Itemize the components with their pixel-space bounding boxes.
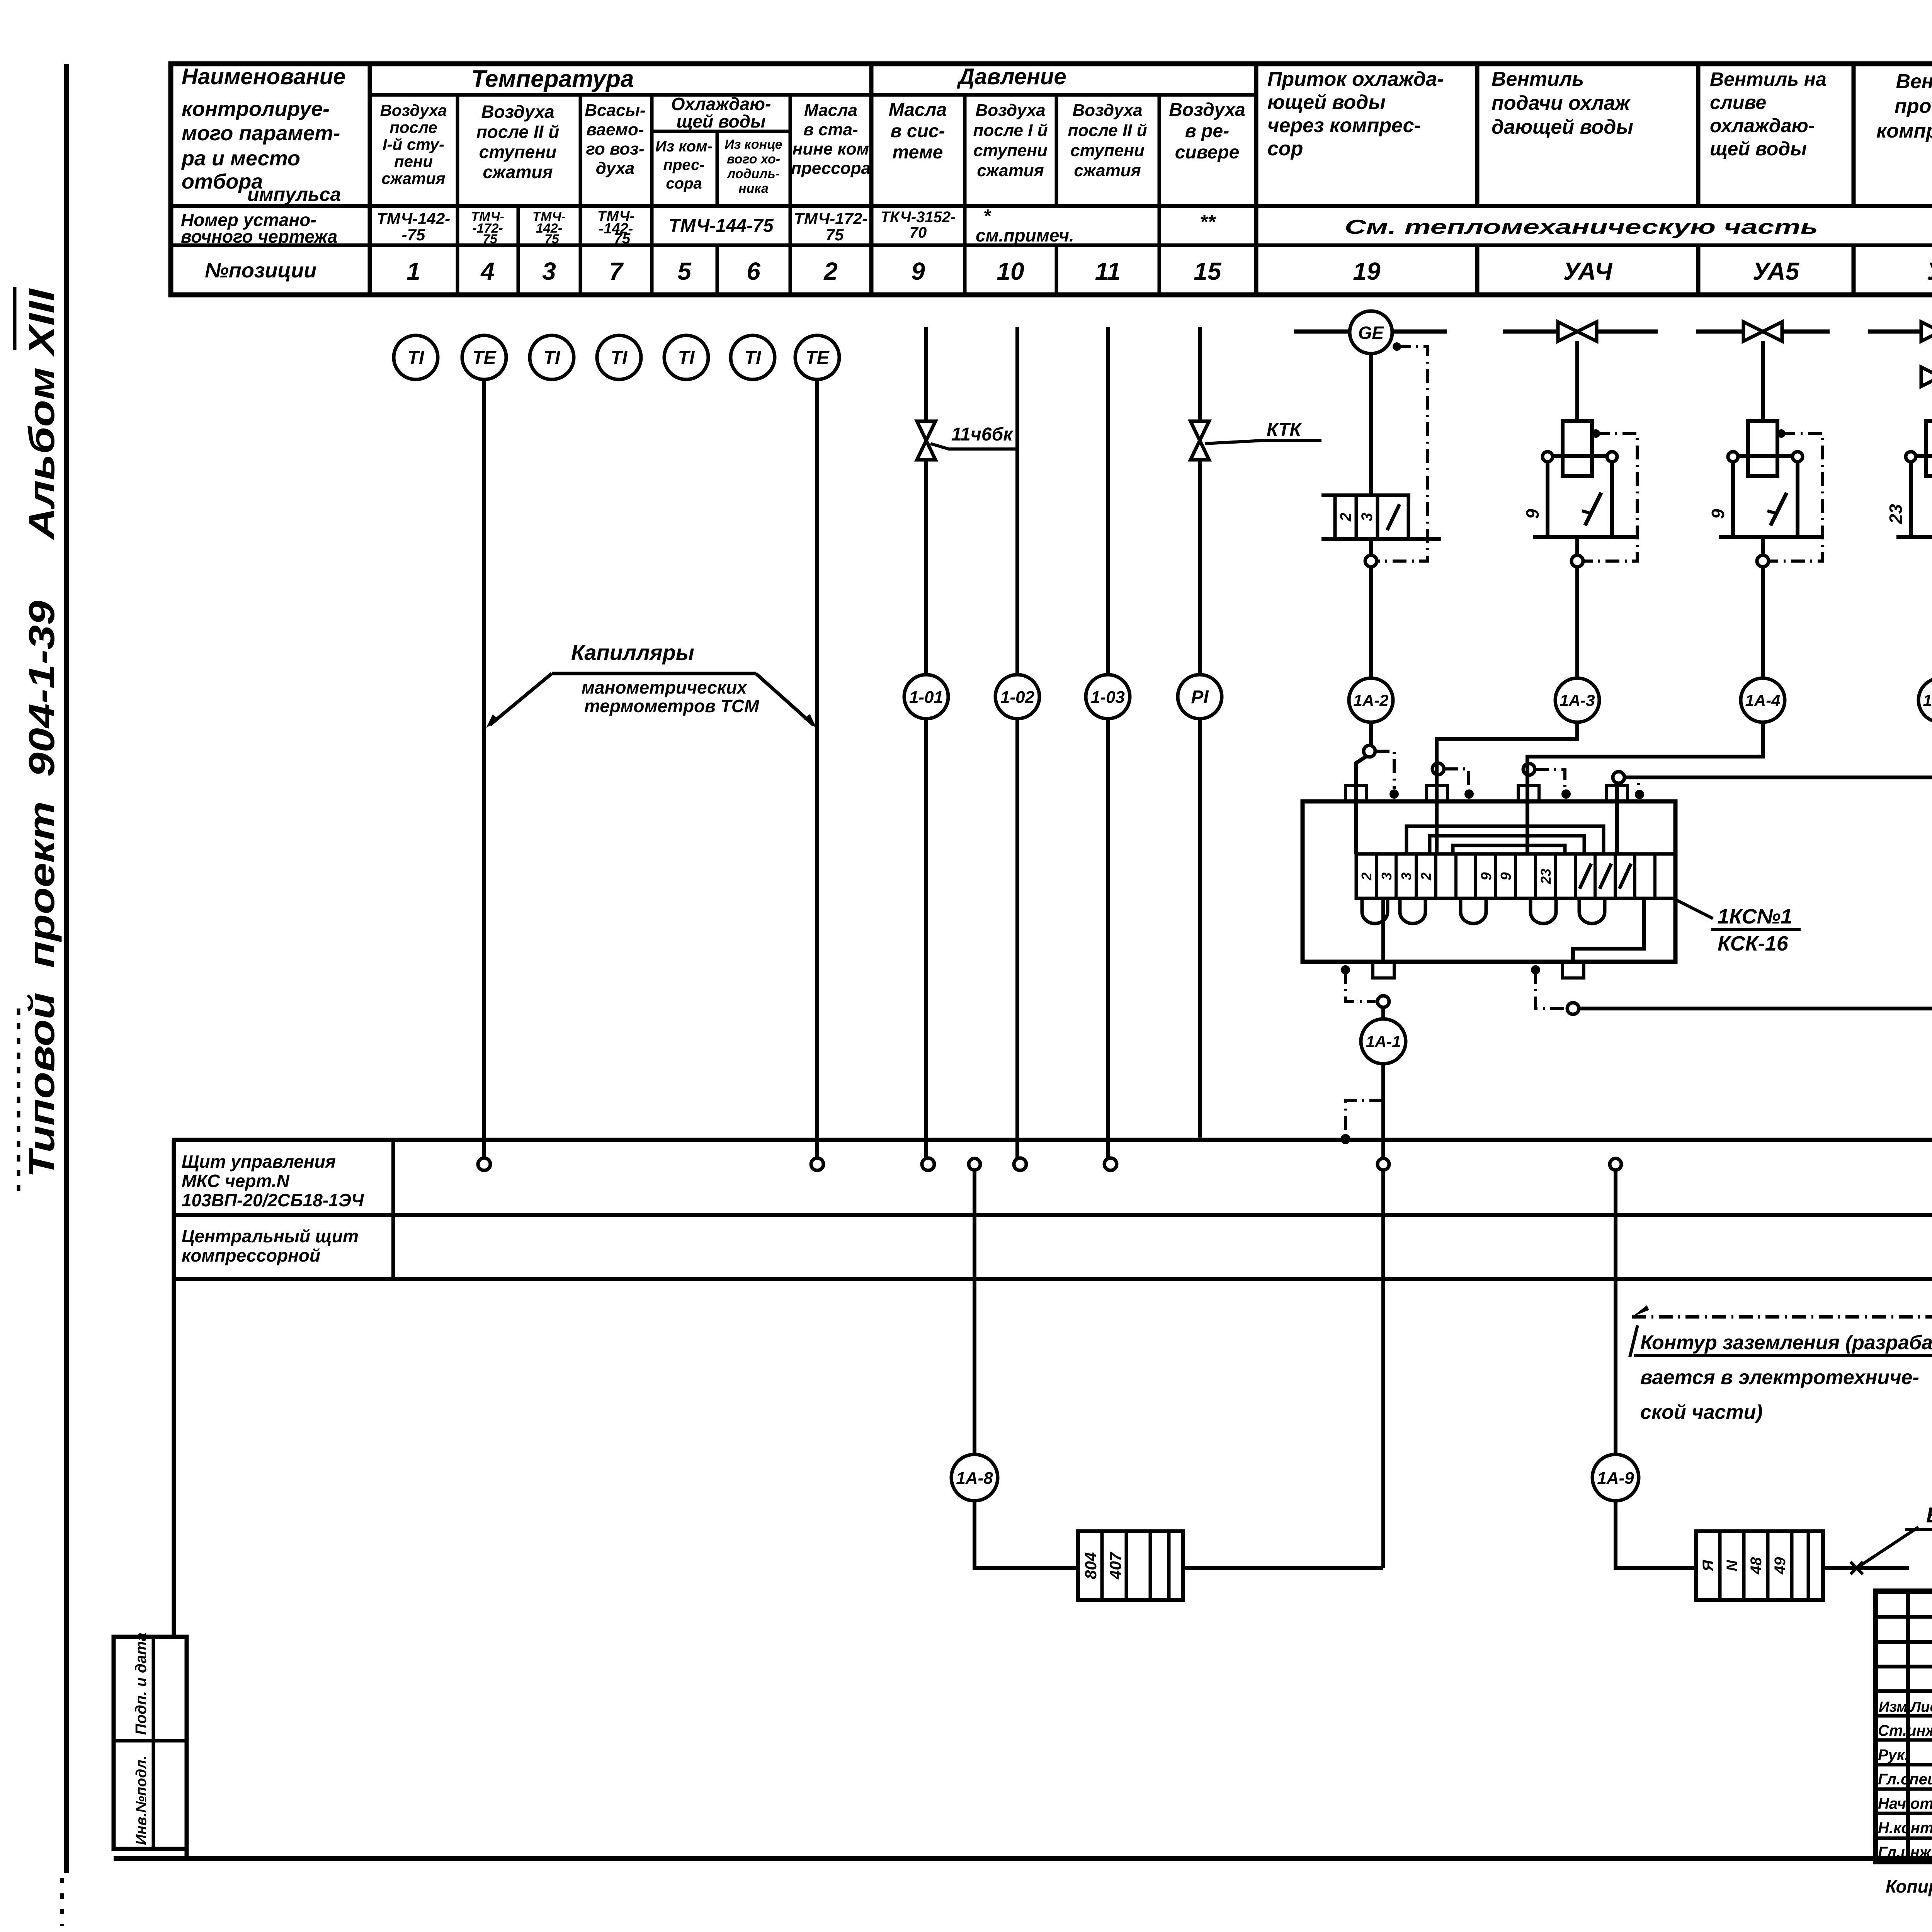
svg-text:после II й: после II й	[1068, 121, 1147, 140]
pipe segment unit1	[1294, 330, 1447, 334]
table column line x2734 lower	[1055, 245, 1058, 295]
svg-text:Рук.: Рук.	[1878, 1747, 1909, 1764]
svg-text:через компрес-: через компрес-	[1267, 114, 1421, 137]
wire PI line	[1198, 327, 1202, 1138]
svg-text:КСК-16: КСК-16	[1718, 932, 1789, 955]
bus 2 divider line	[172, 1213, 1932, 1217]
table column line x1687	[650, 95, 654, 295]
svg-text:Вентиль на: Вентиль на	[1710, 68, 1827, 90]
dot on relay block top edge c4	[1635, 790, 1644, 799]
table column line x3823 lower	[1475, 245, 1480, 295]
svg-text:прес-: прес-	[663, 156, 704, 173]
frame bottom border	[114, 1856, 1932, 1861]
dash-dot link solenoid to terminal 1А-3	[1583, 434, 1637, 561]
junction dot at GE unit1	[1393, 342, 1401, 351]
dash-dot stub to block dot c2	[1444, 769, 1468, 789]
svg-text:49: 49	[1772, 1557, 1789, 1575]
instrument bubble TI x1776	[664, 335, 708, 379]
svg-text:в сис-: в сис-	[890, 121, 945, 141]
svg-text:теме: теме	[893, 142, 943, 163]
terminal circle TE-1 at panel	[478, 1158, 490, 1170]
relay square 1А-3	[1548, 456, 1612, 537]
svg-text:75: 75	[544, 232, 560, 247]
junction circle on 1А-5 drop	[1613, 772, 1624, 783]
table column line x2497	[963, 95, 967, 295]
svg-text:TI: TI	[408, 348, 425, 368]
table column line x3823 upper	[1475, 64, 1480, 206]
table column line x4797 upper	[1852, 64, 1856, 206]
valve 11ч6бк on line 1-01	[917, 421, 935, 460]
instrument bubble GE unit1	[1350, 311, 1392, 354]
cable terminal circle unit1	[1365, 555, 1377, 567]
svg-text:1КС№1: 1КС№1	[1718, 905, 1792, 928]
instrument bubble 1А-3	[1555, 678, 1599, 722]
svg-text:48: 48	[1748, 1557, 1765, 1575]
svg-text:ра и место: ра и место	[181, 147, 300, 170]
svg-text:в ре-: в ре-	[1185, 121, 1229, 141]
label 1КС№1 / КСК-16 with leader	[1675, 900, 1713, 918]
svg-text:I-й сту-: I-й сту-	[383, 135, 444, 153]
svg-text:Копировал Генюк: Копировал Генюк	[1886, 1876, 1932, 1896]
title block outer box	[1876, 1591, 1932, 1862]
valve on pipe 1А-5	[1921, 322, 1932, 341]
svg-text:**: **	[1200, 211, 1216, 233]
connector loops under strip	[1362, 898, 1388, 923]
instrument bubble 1А-4	[1741, 678, 1785, 722]
svg-text:Нач.отд.: Нач.отд.	[1878, 1795, 1932, 1812]
bottom-left stamp table box	[114, 1637, 187, 1849]
overline above XIII	[13, 287, 17, 350]
solenoid body 1А-4	[1748, 421, 1777, 476]
table row line under drawing-number row	[171, 243, 1932, 247]
svg-text:Давление: Давление	[956, 64, 1066, 89]
svg-text:804: 804	[1082, 1552, 1100, 1579]
dot left of right foot	[1531, 965, 1540, 975]
svg-text:компрессорной: компрессорной	[182, 1245, 320, 1265]
svg-text:TI: TI	[544, 348, 561, 368]
svg-text:дающей воды: дающей воды	[1492, 116, 1633, 138]
instrument bubble TE x1253	[462, 335, 506, 379]
svg-text:Изм: Изм	[1879, 1699, 1907, 1715]
svg-text:ника: ника	[738, 181, 769, 196]
svg-text:сжатия: сжатия	[1074, 161, 1141, 180]
svg-text:манометрических: манометрических	[582, 677, 748, 697]
table column line x3000	[1158, 95, 1161, 295]
instrument bubble TE x2115	[795, 335, 839, 379]
svg-text:вочного чертежа: вочного чертежа	[181, 226, 337, 247]
table column line x3251	[1254, 64, 1259, 295]
pipe segment 1А-4	[1696, 330, 1830, 334]
signature table horizontals upper	[1876, 1615, 1932, 1619]
table column line x1856 upper	[716, 131, 719, 206]
svg-text:Воздуха: Воздуха	[1169, 100, 1245, 120]
wire 1А-8 drop	[973, 1170, 976, 1455]
frame inner left vertical lower segment	[185, 1637, 189, 1859]
svg-text:духа: духа	[596, 159, 635, 178]
svg-text:щей воды: щей воды	[677, 111, 766, 131]
instrument bubble 1-01	[904, 675, 948, 719]
wire terminal to bubble 1А-2	[1369, 567, 1373, 678]
svg-text:Лист: Лист	[1910, 1699, 1932, 1715]
svg-text:№позиции: №позиции	[205, 259, 316, 282]
svg-text:У3: У3	[1927, 257, 1932, 285]
svg-text:УА5: УА5	[1753, 257, 1800, 285]
wire 1А-1 column	[1381, 1007, 1385, 1019]
table column line x4395 lower	[1696, 245, 1701, 295]
svg-text:Наименование: Наименование	[182, 64, 345, 89]
signature table horizontals rows	[1876, 1738, 1932, 1742]
dot on relay block top edge c3	[1561, 789, 1571, 799]
bus 3 bottom line	[172, 1277, 1932, 1281]
svg-text:3: 3	[1359, 513, 1376, 521]
internal entry verticals	[1435, 739, 1439, 854]
svg-text:ТМЧ-142-: ТМЧ-142-	[377, 209, 451, 228]
dash-dot stub to block dot unit1	[1376, 751, 1394, 789]
svg-text:Масла: Масла	[889, 100, 947, 120]
scan edge marks left fold	[17, 1009, 20, 1198]
instrument bubble TI x1948	[731, 335, 775, 379]
wire terminal to bubble 1А-3	[1575, 567, 1579, 678]
svg-text:*: *	[983, 206, 992, 226]
terminal circle 1-01 at panel	[922, 1158, 934, 1170]
svg-text:Контур заземления (разрабаты-: Контур заземления (разрабаты-	[1640, 1332, 1932, 1354]
svg-text:9: 9	[1478, 872, 1495, 880]
relay block outer box	[1303, 801, 1675, 962]
svg-text:1А-4: 1А-4	[1745, 691, 1780, 709]
svg-text:См. тепломеханическую часть: См. тепломеханическую часть	[1345, 216, 1818, 238]
svg-text:мого парамет-: мого парамет-	[182, 122, 340, 145]
signature table verticals	[1906, 1591, 1910, 1862]
svg-text:сивере: сивере	[1175, 142, 1240, 163]
svg-text:Вентиль: Вентиль	[1896, 70, 1932, 93]
valve stem 1А-4	[1761, 341, 1765, 421]
svg-text:TI: TI	[611, 348, 628, 368]
capillary bracket horizontal	[552, 672, 756, 675]
svg-text:КТК: КТК	[1267, 420, 1302, 440]
pipe segment 1А-5	[1868, 330, 1932, 334]
dash-dot link solenoid to terminal 1А-4	[1769, 434, 1823, 561]
svg-text:19: 19	[1353, 257, 1381, 285]
svg-text:Температура: Температура	[471, 66, 634, 92]
svg-text:сор: сор	[1267, 138, 1303, 160]
svg-text:В 1ШУ: В 1ШУ	[1926, 1503, 1932, 1527]
wire square to terminal 1А-3	[1575, 537, 1579, 555]
svg-text:ступени: ступени	[1070, 141, 1145, 160]
svg-text:Капилляры: Капилляры	[571, 640, 694, 665]
svg-text:2: 2	[823, 257, 838, 285]
svg-text:ступени: ступени	[973, 141, 1048, 160]
svg-text:см.примеч.: см.примеч.	[976, 225, 1074, 245]
svg-text:75: 75	[826, 226, 844, 244]
svg-text:Подп. и дата: Подп. и дата	[133, 1633, 150, 1735]
wire from TE-1 down to panel	[482, 379, 486, 1158]
terminal box A N 48 49	[1696, 1531, 1823, 1600]
dash-dot stub to block dot c4	[1624, 777, 1638, 791]
terminal circle TE-2 at panel	[811, 1158, 823, 1170]
wire 1А-8 to terminal box 804/407	[975, 1501, 1078, 1568]
entry feet on top edge	[1345, 786, 1366, 802]
svg-text:вого хо-: вого хо-	[727, 152, 780, 167]
wire GE down to contact box unit1	[1369, 354, 1373, 495]
terminal circle right foot	[1567, 1003, 1579, 1014]
svg-text:Щит управления: Щит управления	[182, 1151, 336, 1172]
svg-text:УАЧ: УАЧ	[1563, 257, 1613, 285]
valve stem 1А-3	[1575, 341, 1579, 421]
wire 1А-1 down through panel	[1381, 1064, 1385, 1568]
junction circle on 1А-3 drop	[1432, 763, 1444, 775]
svg-text:1-02: 1-02	[1000, 688, 1035, 707]
svg-text:лодиль-: лодиль-	[726, 167, 780, 181]
corner circles 1А-4	[1728, 452, 1738, 462]
table column line x2734 upper	[1055, 95, 1058, 206]
instrument bubble 1А-2	[1349, 678, 1393, 722]
terminal circle 1А-9 at panel	[1610, 1158, 1621, 1170]
instrument bubble 1А-1	[1361, 1019, 1406, 1064]
svg-text:1А-5: 1А-5	[1923, 691, 1932, 709]
junction circle on 1А-4 drop	[1523, 764, 1535, 775]
svg-text:6: 6	[747, 257, 760, 285]
svg-text:5: 5	[677, 257, 692, 285]
svg-text:МКС черт.N: МКС черт.N	[182, 1171, 290, 1191]
instrument bubble TI x1428	[530, 335, 574, 379]
dash-dot stub to bus dot near 1А-1	[1345, 1100, 1383, 1134]
internal drop to right foot	[1573, 898, 1644, 962]
svg-text:1А-2: 1А-2	[1353, 691, 1388, 709]
table column line x1856 lower	[716, 245, 719, 295]
svg-text:ваемо-: ваемо-	[586, 120, 644, 139]
svg-text:2: 2	[1337, 513, 1354, 522]
svg-text:импульса: импульса	[247, 184, 341, 205]
svg-text:Вентиль: Вентиль	[1492, 68, 1584, 90]
junction dot solenoid 1А-3	[1592, 429, 1600, 438]
instrument bubble 1-03	[1086, 675, 1130, 719]
svg-text:1А-9: 1А-9	[1597, 1469, 1634, 1488]
svg-text:после II й: после II й	[476, 122, 560, 142]
instrument bubble TI x1076	[394, 335, 438, 379]
svg-text:1А-8: 1А-8	[956, 1469, 993, 1488]
svg-text:75: 75	[614, 231, 631, 247]
svg-text:PI: PI	[1191, 687, 1209, 707]
svg-text:1А-1: 1А-1	[1366, 1032, 1401, 1051]
svg-text:ской части): ской части)	[1640, 1401, 1763, 1423]
svg-text:11ч6бк: 11ч6бк	[951, 424, 1014, 445]
valve on pipe 1А-3	[1558, 322, 1597, 341]
instrument bubble 1А-5	[1918, 678, 1932, 722]
dash-dot left foot to terminal	[1345, 970, 1376, 1002]
dash-dot link GE to terminal unit1	[1378, 347, 1428, 561]
svg-text:10: 10	[997, 257, 1024, 285]
svg-text:1: 1	[406, 257, 420, 285]
table column line x4797 lower	[1852, 245, 1856, 295]
svg-text:1-03: 1-03	[1091, 688, 1125, 707]
table column line x2255	[869, 64, 874, 295]
svg-text:407: 407	[1106, 1551, 1124, 1580]
table column line x1341	[517, 206, 520, 295]
terminal circle 1А-1 at panel	[1378, 1158, 1389, 1170]
terminal circle 1А-1 top	[1378, 996, 1389, 1007]
table column line x1184	[456, 95, 459, 295]
svg-text:прессора: прессора	[791, 159, 871, 178]
svg-text:11: 11	[1095, 257, 1121, 285]
internal wiring nested rectangles	[1406, 826, 1604, 854]
valve КТК on PI line	[1190, 421, 1209, 460]
wire 1А-9 drop	[1614, 1170, 1617, 1455]
arrow at left end of ground bus	[1632, 1305, 1649, 1317]
svg-text:1А-3: 1А-3	[1560, 691, 1595, 709]
svg-text:9: 9	[1708, 509, 1728, 519]
svg-text:контролируе-: контролируе-	[182, 97, 330, 121]
bottom-left stamp table divider vertical	[152, 1637, 155, 1849]
svg-text:75: 75	[483, 232, 498, 247]
svg-text:ступени: ступени	[479, 142, 557, 162]
panel label box divider	[391, 1140, 395, 1279]
junction dot solenoid 1А-4	[1777, 429, 1786, 438]
svg-text:термометров ТСМ: термометров ТСМ	[584, 696, 760, 716]
svg-text:9: 9	[1522, 509, 1543, 519]
svg-text:23: 23	[1538, 869, 1554, 884]
leader to В 1ШУ	[1857, 1527, 1918, 1568]
svg-text:Инв.№подл.: Инв.№подл.	[133, 1756, 150, 1845]
internal drop to left foot	[1381, 898, 1385, 962]
svg-text:Воздуха: Воздуха	[1072, 101, 1142, 120]
svg-text:щей воды: щей воды	[1710, 138, 1807, 160]
wire 1А-6 down and left to relay block	[1579, 722, 1932, 1009]
frame inner left vertical below table	[172, 1140, 176, 1637]
wire from TE-2 down to panel	[815, 379, 819, 1158]
svg-text:ющей воды: ющей воды	[1267, 91, 1386, 114]
wire to 1ШУ with tick	[1823, 1566, 1909, 1570]
terminal circle 1-02 at panel	[1014, 1158, 1026, 1170]
N mark inside square 1А-3	[1585, 493, 1601, 526]
corner circles 1А-3	[1543, 452, 1553, 462]
cable terminal circle 1А-3	[1571, 555, 1583, 567]
svg-text:Масла: Масла	[804, 101, 857, 120]
svg-text:70: 70	[910, 224, 927, 241]
wire box 804/407 to 1А-1 drop	[1183, 1566, 1383, 1570]
svg-text:продувки: продувки	[1895, 95, 1932, 117]
ground bus dash-dot line	[1632, 1315, 1932, 1319]
svg-text:1-01: 1-01	[909, 688, 943, 707]
svg-text:Гл.спец.: Гл.спец.	[1878, 1771, 1932, 1788]
solenoid body 1А-5	[1926, 421, 1932, 476]
bottom-left stamp table divider horizontal	[114, 1739, 187, 1743]
svg-text:охлаждаю-: охлаждаю-	[1710, 115, 1815, 136]
terminal strip of block	[1356, 854, 1675, 898]
wire 1А-2 to junction circle	[1369, 722, 1373, 745]
svg-text:подачи охлаж: подачи охлаж	[1492, 92, 1631, 114]
svg-text:3: 3	[1379, 872, 1395, 880]
table divider under Охлаждающей воды	[652, 130, 790, 133]
svg-text:сжатия: сжатия	[381, 169, 445, 187]
svg-text:в ста-: в ста-	[803, 120, 858, 139]
junction circle below 1А-2	[1364, 745, 1375, 757]
contact box unit1 (cells 2 3 N)	[1321, 493, 1410, 497]
wire 1-03 line	[1106, 327, 1110, 1158]
svg-text:GE: GE	[1358, 323, 1384, 343]
dot on relay block top edge c1	[1389, 789, 1399, 799]
wire 1А-3 to relay block	[1437, 722, 1577, 854]
table column line x2045	[789, 95, 792, 295]
svg-text:Приток охлажда-: Приток охлажда-	[1267, 68, 1444, 90]
svg-text:го воз-: го воз-	[586, 139, 645, 158]
svg-text:4: 4	[480, 257, 495, 285]
table row line under headers	[171, 204, 1932, 208]
svg-text:вается в электротехниче-: вается в электротехниче-	[1640, 1366, 1919, 1389]
bus 1 Щит управления top line	[172, 1138, 1932, 1142]
wire 1А-5 to relay block	[1617, 722, 1932, 801]
svg-text:TI: TI	[745, 348, 762, 368]
valve on pipe 1А-4	[1743, 322, 1782, 341]
table outer border	[171, 64, 1932, 295]
table column line x1502	[579, 95, 582, 295]
svg-text:Я: Я	[1700, 1560, 1717, 1572]
dot on bus near 1А-1	[1340, 1134, 1350, 1144]
svg-text:ТМЧ-144-75: ТМЧ-144-75	[668, 216, 774, 236]
base line 1А-5	[1896, 535, 1932, 539]
svg-text:15: 15	[1194, 257, 1222, 285]
wire 1А-9 to terminal box 48/49	[1616, 1501, 1696, 1568]
frame left vertical border	[64, 64, 69, 1873]
cable terminal circle 1А-4	[1757, 555, 1769, 567]
pipe segment 1А-3	[1503, 330, 1658, 334]
base line 1А-4	[1719, 535, 1824, 539]
svg-text:нине ком: нине ком	[793, 139, 869, 158]
svg-text:Центральный щит: Центральный щит	[182, 1226, 359, 1246]
svg-text:7: 7	[609, 257, 624, 285]
instrument bubble 1-02	[995, 675, 1039, 719]
svg-text:Из конце: Из конце	[724, 137, 782, 152]
dot left of left foot	[1341, 965, 1350, 975]
svg-text:9: 9	[1498, 872, 1514, 880]
svg-text:Н.контр.: Н.контр.	[1878, 1820, 1932, 1837]
svg-text:Типовой проект 904-1-39: Типовой проект 904-1-39 Альбом XIII	[21, 288, 62, 1178]
svg-text:пени: пени	[394, 152, 433, 170]
svg-text:Гл.инж.пр: Гл.инж.пр	[1878, 1844, 1932, 1861]
instrument bubble 1А-8	[951, 1454, 998, 1501]
svg-text:2: 2	[1359, 872, 1374, 881]
capillary bracket left slope with arrow	[490, 673, 552, 725]
svg-text:103ВП-20/2СБ18-1ЭЧ: 103ВП-20/2СБ18-1ЭЧ	[182, 1190, 364, 1210]
table sub-header top line (Температура/Давление groups)	[370, 93, 1256, 97]
svg-text:3: 3	[1398, 872, 1414, 880]
svg-text:-75: -75	[402, 226, 425, 244]
table column line x4395 upper	[1696, 64, 1701, 206]
instrument bubble 1А-9	[1592, 1454, 1639, 1501]
svg-text:TI: TI	[678, 348, 695, 368]
dash-dot stub to block dot c3	[1535, 769, 1565, 789]
svg-text:Всасы-: Всасы-	[585, 101, 645, 120]
wire 1-02 line	[1015, 327, 1019, 1158]
wire box to terminal unit1	[1369, 539, 1373, 555]
wire into relay block from 1А-2	[1356, 756, 1367, 854]
N mark inside square 1А-4	[1770, 493, 1787, 526]
svg-text:TE: TE	[805, 348, 830, 368]
base line 1А-3	[1533, 535, 1638, 539]
terminal circle 1-03 at panel	[1104, 1158, 1117, 1170]
corner circles 1А-5	[1906, 452, 1916, 462]
svg-text:после I й: после I й	[973, 121, 1048, 140]
svg-text:23: 23	[1886, 504, 1906, 524]
svg-text:Ст.инж.: Ст.инж.	[1878, 1722, 1932, 1739]
scan edge marks bottom left	[60, 1878, 64, 1926]
svg-text:Воздуха: Воздуха	[975, 101, 1045, 120]
solenoid body 1А-3	[1563, 421, 1592, 476]
svg-text:Из ком-: Из ком-	[655, 138, 713, 155]
svg-text:3: 3	[542, 257, 556, 285]
terminal circle 1А-8 at panel	[969, 1158, 980, 1170]
svg-text:сора: сора	[666, 175, 702, 192]
svg-text:сливе: сливе	[1710, 92, 1766, 113]
